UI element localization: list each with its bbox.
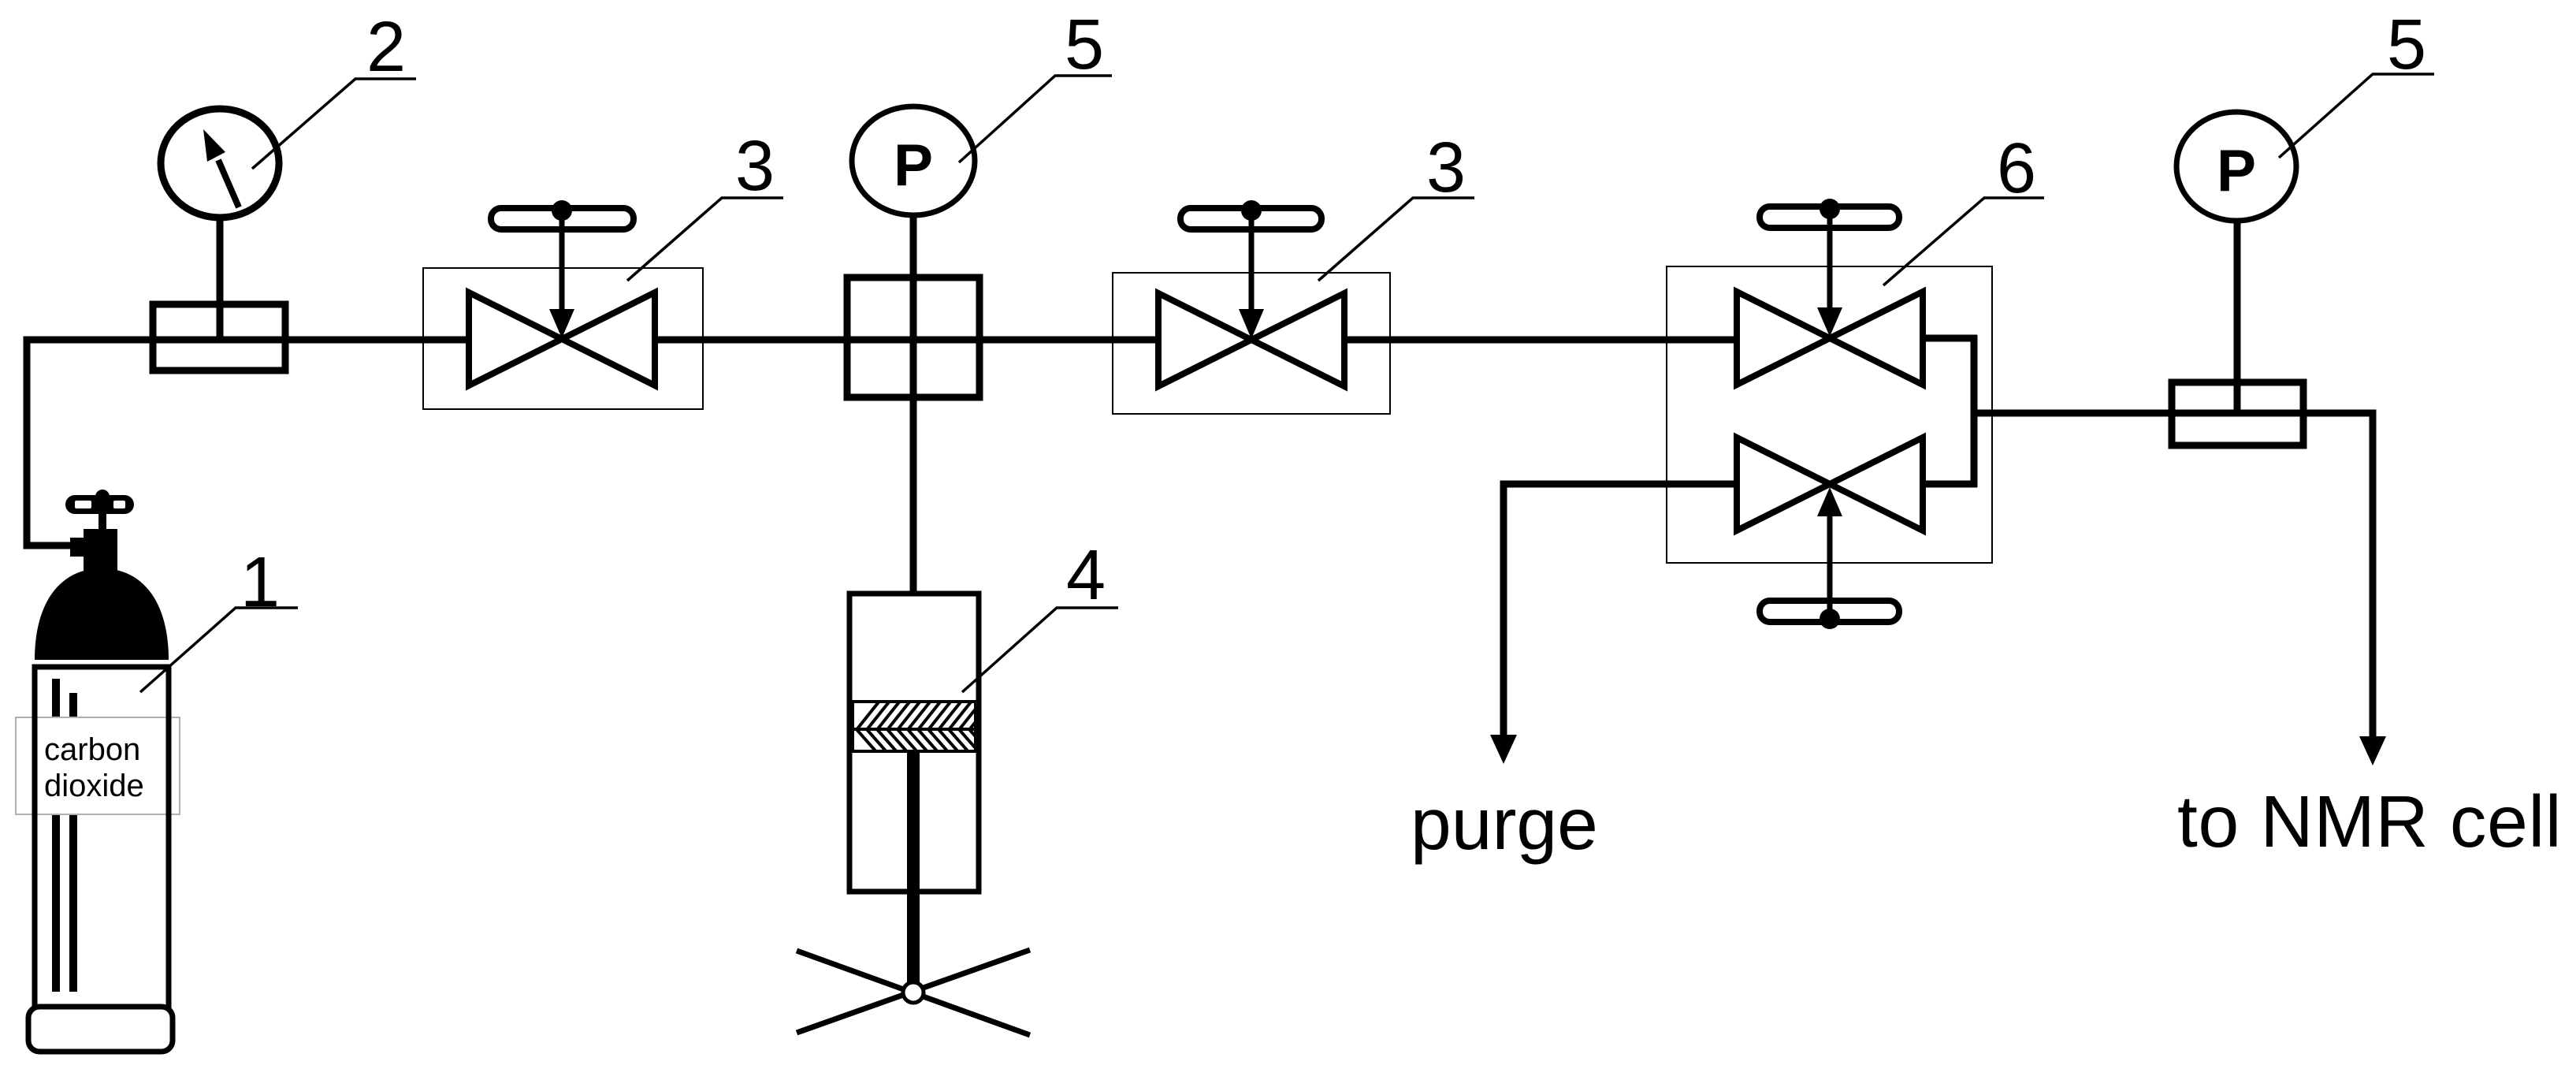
upper handle bbox=[1760, 207, 1899, 228]
gauge 2 tee fitting bbox=[153, 304, 285, 371]
svg-text:6: 6 bbox=[1997, 129, 2036, 208]
wire: P gauge through cross to syringe bbox=[910, 215, 917, 594]
svg-text:carbon: carbon bbox=[44, 732, 140, 767]
cylinder dome bbox=[35, 568, 169, 660]
P gauge 5 (second) bbox=[2176, 112, 2296, 413]
wire: purge line bbox=[1490, 484, 1737, 764]
svg-text:P: P bbox=[894, 132, 933, 198]
svg-text:3: 3 bbox=[1426, 128, 1466, 207]
valve 3 (second) bbox=[1113, 200, 1390, 414]
cylinder body outline bbox=[35, 667, 169, 1010]
wire: valve 3b to valve assembly 6 bbox=[1344, 337, 1737, 344]
valve assembly 6 bbox=[1667, 199, 1992, 629]
cylinder valve stem bbox=[99, 512, 106, 531]
svg-text:dioxide: dioxide bbox=[44, 769, 144, 803]
svg-text:3: 3 bbox=[735, 127, 775, 206]
cylinder handwheel bbox=[65, 495, 134, 514]
label 6 bbox=[1883, 129, 2044, 285]
lower handle bbox=[1760, 601, 1899, 622]
label 1 bbox=[140, 543, 298, 692]
label 4 bbox=[962, 536, 1118, 692]
wire: outlet to NMR bbox=[1974, 413, 2386, 765]
upper bowtie bbox=[1737, 292, 1830, 385]
wire: valve 3a to valve 3b through cross fitting bbox=[655, 337, 1158, 344]
svg-text:2: 2 bbox=[366, 8, 406, 87]
label 3 (first) bbox=[627, 127, 783, 281]
svg-text:purge: purge bbox=[1411, 783, 1598, 865]
label 2 bbox=[252, 8, 416, 169]
cross fitting bbox=[847, 277, 979, 397]
P gauge 5 (first) bbox=[852, 106, 975, 215]
gas cylinder 1 bbox=[16, 490, 180, 1052]
svg-text:4: 4 bbox=[1066, 536, 1106, 615]
svg-text:1: 1 bbox=[240, 543, 280, 622]
label 5 (first) bbox=[959, 6, 1112, 162]
wire: cylinder to main line (left bend) bbox=[27, 340, 469, 546]
svg-text:5: 5 bbox=[2387, 6, 2426, 84]
cylinder label plate bbox=[16, 717, 180, 814]
valve 3 (first) bbox=[423, 200, 703, 409]
cylinder valve body bbox=[84, 529, 117, 579]
lower bowtie bbox=[1737, 438, 1830, 531]
wire: upper valve outlet bbox=[1923, 335, 1977, 342]
label 3 (second) bbox=[1318, 128, 1474, 281]
wire: lower valve outlet bbox=[1923, 481, 1977, 488]
svg-text:P: P bbox=[2217, 137, 2256, 203]
cylinder body fill bbox=[35, 667, 169, 1010]
svg-text:5: 5 bbox=[1065, 6, 1104, 84]
gauge 2 bbox=[161, 109, 279, 340]
cylinder reflection stripes bbox=[52, 679, 60, 992]
cylinder base bbox=[28, 1007, 173, 1052]
label 5 (second) bbox=[2279, 6, 2434, 158]
syringe pump 4 bbox=[797, 594, 1030, 1035]
cylinder handle bump bbox=[95, 490, 110, 504]
wire: outlet bus bbox=[1971, 335, 1978, 487]
svg-text:to NMR cell: to NMR cell bbox=[2177, 780, 2562, 862]
right tee fitting bbox=[2172, 382, 2303, 445]
